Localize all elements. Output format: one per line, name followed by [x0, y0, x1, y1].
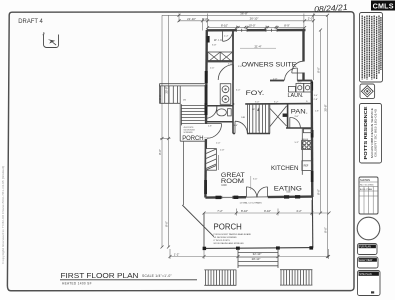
exterior wall bottom — [205, 197, 312, 198]
svg-text:3'-6": 3'-6" — [238, 66, 243, 68]
deck steps — [238, 249, 278, 268]
porch posts — [203, 247, 207, 250]
POTTS RESIDENCE box (rotated text) — [360, 104, 382, 164]
svg-text:2'-6": 2'-6" — [210, 68, 215, 70]
bath vanity with two sinks — [220, 84, 231, 105]
bath door from hall — [218, 65, 233, 80]
kitchen sink — [303, 129, 311, 133]
svg-text:HEATED 1400 SF: HEATED 1400 SF — [62, 281, 92, 285]
svg-text:PAN.: PAN. — [291, 108, 308, 115]
svg-text:8'-10": 8'-10" — [221, 24, 228, 28]
pantry left wall — [287, 104, 289, 128]
svg-text:28'-10": 28'-10" — [252, 257, 261, 261]
side porch bottom edge — [180, 140, 205, 142]
toilet room bottom wall — [206, 121, 233, 123]
svg-text:W.I.C.: W.I.C. — [214, 38, 223, 42]
top dimension line row 3 — [208, 26, 305, 31]
diamond logo box — [360, 84, 375, 99]
svg-text:POTTS RESIDENCE: POTTS RESIDENCE — [363, 106, 369, 160]
clip symbol — [43, 32, 59, 47]
CMLS logo box — [371, 1, 395, 11]
interior divider line eating — [250, 176, 252, 190]
svg-text:14R: 14R — [241, 117, 245, 119]
svg-text:McCAW OBB DESIGN SERVICE: McCAW OBB DESIGN SERVICE — [371, 107, 374, 158]
stair bottom wall — [233, 133, 270, 135]
under-stair storage diagonals — [270, 106, 287, 127]
svg-text:Copyright licensed to TCM-06 P: Copyright licensed to TCM-06 Plans 803-7… — [1, 166, 5, 264]
bottom dimension line y213 — [204, 200, 329, 216]
left railing — [204, 270, 236, 285]
exterior wall left — [205, 30, 206, 198]
small header box 1 — [358, 244, 378, 255]
french door opening in bottom wall — [246, 195, 268, 199]
WIC right wall — [232, 31, 234, 61]
svg-text:SITE PLAN: SITE PLAN — [359, 273, 371, 276]
window in bottom wall left — [222, 196, 233, 199]
svg-text:PORCH: PORCH — [214, 222, 242, 231]
title underline — [60, 279, 197, 281]
svg-text:FIRST FLOOR PLAN: FIRST FLOOR PLAN — [61, 271, 139, 280]
dark posts on bottom wall — [216, 196, 222, 199]
svg-text:NO. SC DWG: NO. SC DWG — [360, 185, 374, 187]
svg-text:FLR PLAN: FLR PLAN — [359, 246, 371, 249]
svg-text:9'-10": 9'-10" — [264, 209, 271, 213]
svg-text:26'-10": 26'-10" — [250, 17, 259, 21]
svg-text:30'-8": 30'-8" — [323, 104, 327, 111]
toilet fixture — [217, 109, 231, 116]
svg-text:5/4 DECKING SCREWED: 5/4 DECKING SCREWED — [214, 237, 238, 239]
svg-text:3'-0": 3'-0" — [234, 125, 239, 127]
svg-text:CMLS: CMLS — [373, 1, 394, 10]
svg-text:2'-8": 2'-8" — [314, 99, 319, 101]
exterior wall right lower — [311, 81, 314, 198]
kitchen top wall — [286, 127, 312, 129]
svg-text:PORCH: PORCH — [182, 136, 203, 142]
foyer opening gap — [234, 102, 245, 106]
svg-text:8'-10": 8'-10" — [241, 209, 248, 213]
porch roof diagonal — [182, 205, 214, 237]
refrigerator — [302, 161, 312, 171]
porch door into great room — [204, 124, 222, 139]
svg-text:PORCH SOFFIT PAINTED BEAD BOAR: PORCH SOFFIT PAINTED BEAD BOARD — [214, 233, 252, 236]
svg-text:7'-2": 7'-2" — [217, 209, 223, 213]
range with burners — [302, 141, 312, 150]
WIC bottom wall — [207, 60, 233, 62]
svg-text:2'-4": 2'-4" — [224, 36, 229, 38]
stairs — [248, 104, 269, 134]
kitchen counter edge — [301, 128, 303, 175]
svg-text:5'-8": 5'-8" — [212, 45, 217, 47]
svg-text:8'-9": 8'-9" — [284, 24, 290, 28]
pantry door — [290, 117, 301, 128]
laundry appliances — [296, 83, 311, 92]
toilet room door — [206, 106, 217, 118]
hall wall below owners suite — [270, 80, 284, 82]
small header box 2 — [358, 257, 379, 268]
svg-text:5'-0": 5'-0" — [228, 63, 233, 65]
svg-text:FOY.: FOY. — [246, 91, 265, 97]
window top wall 1 — [237, 29, 248, 32]
toilet room top wall — [206, 105, 233, 107]
svg-text:2'-8": 2'-8" — [208, 125, 212, 127]
svg-text:21'-4": 21'-4" — [254, 44, 261, 48]
dark fill left of pantry — [283, 114, 288, 117]
svg-text:ELEV VIEW: ELEV VIEW — [359, 259, 373, 262]
french double door arcs — [246, 187, 267, 197]
top dimension line row 2 — [179, 14, 314, 31]
svg-text:3'-0": 3'-0" — [314, 95, 318, 97]
owners suite door (right wall) — [292, 61, 305, 73]
svg-text:UP: UP — [252, 109, 256, 111]
svg-text:LAUN.: LAUN. — [288, 93, 304, 99]
svg-text:5'-6": 5'-6" — [253, 179, 258, 181]
svg-text:6" WOOD POSTS: 6" WOOD POSTS — [214, 240, 231, 242]
svg-text:SCREWED: SCREWED — [184, 132, 194, 134]
svg-text:8'-6": 8'-6" — [323, 227, 327, 233]
window sill tick clusters above top wall — [238, 26, 277, 28]
svg-text:1'-2": 1'-2" — [174, 252, 180, 256]
left dimension column — [160, 15, 179, 247]
spec table box — [359, 177, 378, 214]
svg-text:3'-0": 3'-0" — [255, 102, 260, 104]
svg-text:8'-6": 8'-6" — [316, 67, 320, 73]
right dimension column — [314, 15, 328, 256]
svg-text:10'-0": 10'-0" — [248, 24, 255, 28]
svg-text:WOOD RAILING AND SPINDLES: WOOD RAILING AND SPINDLES — [214, 242, 245, 245]
svg-text:8'-6": 8'-6" — [316, 189, 320, 195]
foyer door at stair bottom — [235, 121, 247, 135]
dimension tick marks — [161, 14, 331, 258]
svg-text:GILBERT SC 803 181-0145: GILBERT SC 803 181-0145 — [375, 108, 378, 157]
WIC door — [223, 32, 233, 42]
disclaimer box with rotated fine print — [360, 13, 383, 83]
top dimension line row 1 — [179, 13, 314, 80]
porch left edge lower — [203, 213, 205, 248]
porch edge line to diagonal — [183, 141, 185, 205]
WIC closet shelf hatch — [208, 52, 233, 62]
svg-text:A1 FL PLAN: A1 FL PLAN — [360, 188, 372, 191]
owners suite entry door — [285, 68, 298, 81]
svg-text:OWNERS SUITE: OWNERS SUITE — [242, 61, 297, 68]
svg-text:2'-8": 2'-8" — [273, 78, 278, 80]
hall/bath wall x233 — [232, 61, 234, 134]
svg-text:4'-0": 4'-0" — [236, 89, 241, 91]
dark openings in right wall — [311, 82, 314, 91]
large header box 3 — [358, 271, 381, 296]
svg-text:8'-6": 8'-6" — [164, 221, 168, 227]
side porch deck edge beam — [159, 84, 206, 104]
dark openings in left wall — [207, 36, 210, 43]
svg-text:4'-2": 4'-2" — [296, 209, 302, 213]
porch bottom edge — [204, 247, 314, 250]
svg-text:SHOWN: SHOWN — [360, 178, 370, 182]
long wall y104 — [233, 103, 312, 105]
side lower stair treads — [181, 104, 204, 125]
svg-text:SCALE 1/4"=1'-0": SCALE 1/4"=1'-0" — [142, 274, 173, 278]
svg-text:2'-0": 2'-0" — [308, 17, 314, 21]
porch right edge — [311, 197, 313, 248]
svg-text:2'-8": 2'-8" — [315, 110, 319, 112]
svg-text:DRAFT 4: DRAFT 4 — [18, 19, 43, 25]
storage right wall — [269, 104, 271, 134]
svg-text:RANGE: RANGE — [302, 138, 309, 141]
svg-text:1/2 WAL CO & TRANS: 1/2 WAL CO & TRANS — [240, 201, 263, 204]
laundry counter — [288, 86, 295, 92]
right railing — [280, 270, 312, 285]
svg-text:6'-2": 6'-2" — [274, 101, 279, 103]
fireplace on left wall — [206, 149, 219, 171]
svg-text:KITCHEN: KITCHEN — [271, 165, 299, 172]
svg-text:8'-6": 8'-6" — [158, 149, 162, 155]
svg-text:W/D: W/D — [298, 81, 302, 83]
svg-text:21'-10": 21'-10" — [187, 17, 196, 21]
svg-text:36'-8": 36'-8" — [240, 11, 248, 15]
svg-text:2'-0": 2'-0" — [216, 143, 221, 145]
circle logo — [357, 217, 380, 240]
side porch left edge — [179, 86, 181, 141]
svg-text:938: 938 — [286, 191, 291, 194]
side exterior stair treads — [159, 86, 180, 103]
svg-text:REF: REF — [304, 164, 309, 167]
window top wall 2 — [266, 29, 277, 32]
exterior wall top — [207, 29, 306, 32]
svg-text:2'-8": 2'-8" — [220, 149, 225, 151]
bottom dimension line y256.5 — [170, 249, 329, 259]
svg-text:5'-2": 5'-2" — [295, 142, 300, 144]
exterior wall right upper (owners suite) — [302, 30, 304, 81]
svg-text:1048: 1048 — [221, 184, 227, 187]
svg-text:3'-8": 3'-8" — [294, 116, 299, 118]
